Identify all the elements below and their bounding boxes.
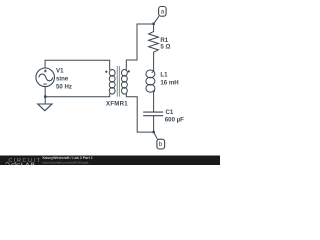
svg-text:LAB: LAB [21,163,36,165]
svg-text:16 mH: 16 mH [160,79,178,86]
svg-text:5 Ω: 5 Ω [160,43,170,50]
svg-text:KaseyWestcraft / Lab 3 Part 1: KaseyWestcraft / Lab 3 Part 1 [43,156,93,160]
svg-text:C1: C1 [166,109,174,116]
svg-text:50 Hz: 50 Hz [56,83,72,90]
svg-text:L1: L1 [160,71,168,78]
svg-text:a: a [161,9,165,16]
svg-text:V1: V1 [56,68,64,75]
svg-text:XFMR1: XFMR1 [106,100,128,107]
svg-text:600 µF: 600 µF [165,116,184,123]
svg-text:sine: sine [56,75,69,82]
svg-text:http://circuitlab.com/c/w5K36J: http://circuitlab.com/c/w5K36Jqpyk [43,161,90,165]
svg-text:b: b [159,141,163,148]
